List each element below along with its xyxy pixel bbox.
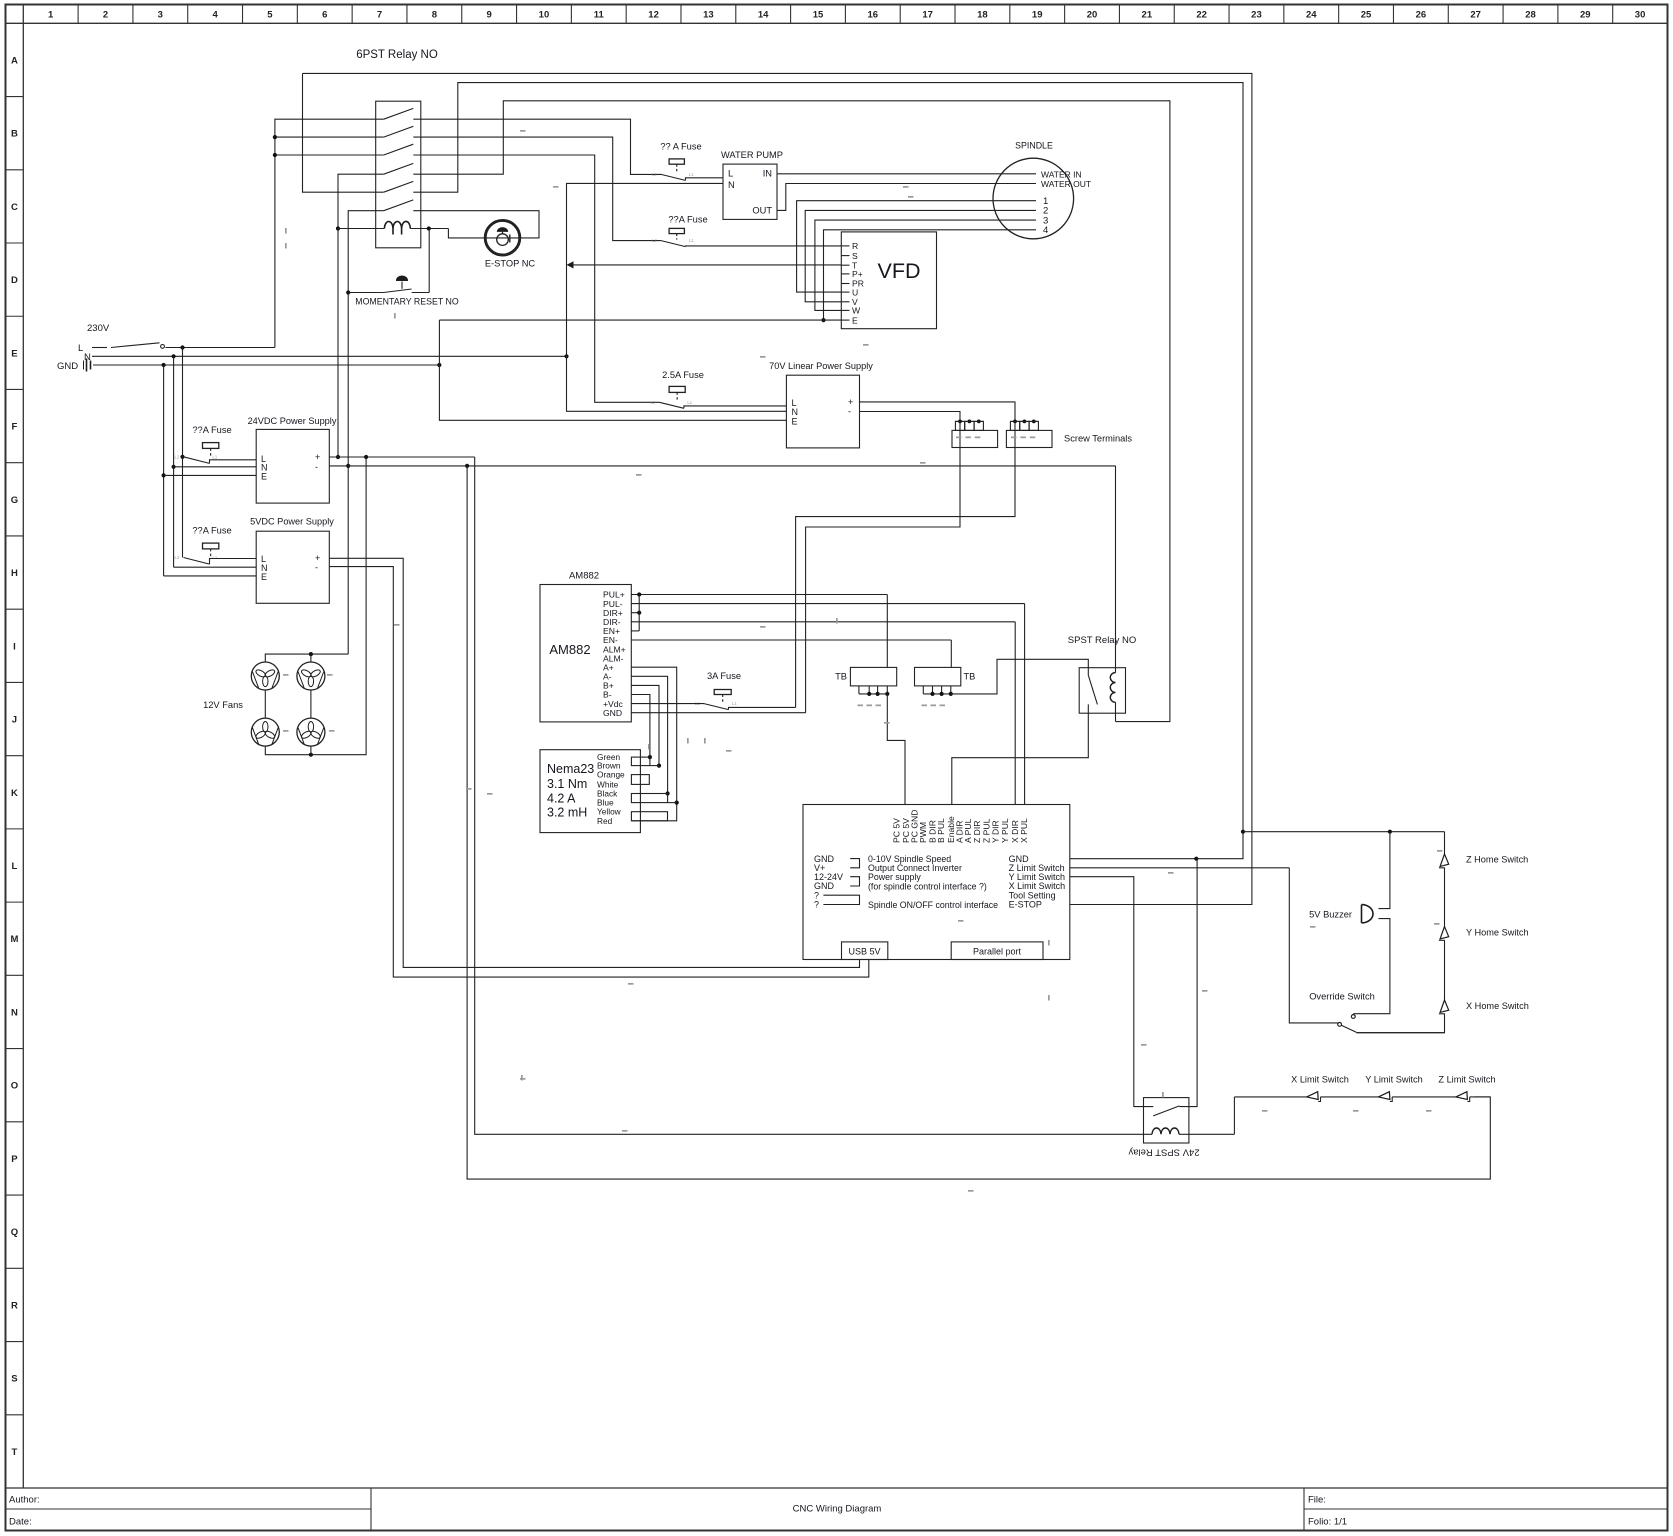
svg-text:L1: L1 bbox=[689, 172, 694, 177]
svg-text:M: M bbox=[10, 934, 18, 945]
svg-text:X Home Switch: X Home Switch bbox=[1466, 1001, 1529, 1011]
svg-text:F: F bbox=[11, 422, 17, 433]
svg-text:-: - bbox=[848, 407, 851, 417]
svg-text:230V: 230V bbox=[87, 323, 110, 334]
svg-text:C: C bbox=[11, 202, 18, 213]
svg-text:B: B bbox=[11, 129, 18, 140]
svg-text:Override Switch: Override Switch bbox=[1309, 992, 1375, 1002]
svg-text:L2: L2 bbox=[652, 238, 657, 243]
svg-text:I: I bbox=[13, 641, 16, 652]
svg-text:L1: L1 bbox=[213, 555, 218, 560]
svg-text:D: D bbox=[11, 275, 18, 286]
svg-text:P+: P+ bbox=[852, 269, 863, 279]
svg-text:J: J bbox=[12, 715, 17, 726]
svg-text:R: R bbox=[852, 241, 858, 251]
svg-text:Screw Terminals: Screw Terminals bbox=[1064, 434, 1132, 444]
svg-text:24: 24 bbox=[1306, 10, 1317, 21]
svg-text:8: 8 bbox=[432, 10, 437, 21]
svg-text:Spindle ON/OFF control interfa: Spindle ON/OFF control interface bbox=[868, 900, 998, 910]
svg-text:E-STOP: E-STOP bbox=[1009, 900, 1042, 910]
svg-text:24VDC Power Supply: 24VDC Power Supply bbox=[248, 416, 337, 426]
svg-text:+: + bbox=[848, 397, 853, 407]
svg-text:3.2 mH: 3.2 mH bbox=[547, 806, 587, 820]
svg-text:A: A bbox=[11, 55, 18, 66]
svg-text:Q: Q bbox=[11, 1227, 18, 1238]
svg-text:??A Fuse: ??A Fuse bbox=[668, 215, 707, 225]
svg-text:3: 3 bbox=[158, 10, 163, 21]
svg-text:+: + bbox=[315, 553, 320, 563]
svg-text:E: E bbox=[261, 572, 267, 582]
svg-text:SPST Relay NO: SPST Relay NO bbox=[1068, 635, 1136, 646]
svg-text:O: O bbox=[11, 1081, 18, 1092]
svg-text:TB: TB bbox=[835, 672, 847, 682]
svg-text:70V Linear Power Supply: 70V Linear Power Supply bbox=[769, 361, 873, 371]
svg-text:S: S bbox=[11, 1374, 17, 1385]
svg-text:Orange: Orange bbox=[597, 770, 625, 780]
svg-text:E: E bbox=[792, 416, 798, 426]
svg-text:Y PUL: Y PUL bbox=[1000, 818, 1010, 843]
svg-text:Date:: Date: bbox=[9, 1517, 32, 1528]
svg-text:11: 11 bbox=[594, 10, 605, 21]
svg-text:SPINDLE: SPINDLE bbox=[1015, 141, 1053, 151]
svg-text:18: 18 bbox=[977, 10, 988, 21]
svg-text:W: W bbox=[852, 306, 861, 316]
svg-text:7: 7 bbox=[377, 10, 382, 21]
svg-text:GND: GND bbox=[603, 708, 622, 718]
svg-text:Z Home Switch: Z Home Switch bbox=[1466, 854, 1528, 864]
svg-text:6PST Relay NO: 6PST Relay NO bbox=[356, 49, 438, 61]
svg-text:L2: L2 bbox=[650, 400, 655, 405]
svg-text:?: ? bbox=[814, 900, 819, 910]
svg-text:TB: TB bbox=[964, 672, 976, 682]
svg-text:H: H bbox=[11, 568, 18, 579]
svg-text:5VDC Power Supply: 5VDC Power Supply bbox=[250, 517, 334, 527]
svg-text:OUT: OUT bbox=[752, 206, 772, 216]
svg-text:-: - bbox=[315, 462, 318, 472]
svg-text:29: 29 bbox=[1580, 10, 1591, 21]
svg-text:-: - bbox=[315, 563, 318, 573]
svg-text:13: 13 bbox=[703, 10, 714, 21]
svg-text:AM882: AM882 bbox=[569, 571, 599, 582]
svg-text:1: 1 bbox=[48, 10, 54, 21]
svg-text:R: R bbox=[11, 1300, 18, 1311]
svg-text:Author:: Author: bbox=[9, 1495, 40, 1506]
svg-text:Y Home Switch: Y Home Switch bbox=[1466, 928, 1529, 938]
svg-text:28: 28 bbox=[1525, 10, 1536, 21]
svg-text:6: 6 bbox=[322, 10, 327, 21]
svg-text:E: E bbox=[261, 471, 267, 481]
svg-text:20: 20 bbox=[1087, 10, 1098, 21]
svg-text:Red: Red bbox=[597, 816, 613, 826]
svg-text:Y Limit Switch: Y Limit Switch bbox=[1365, 1075, 1423, 1085]
svg-text:AM882: AM882 bbox=[549, 642, 590, 657]
svg-text:17: 17 bbox=[922, 10, 933, 21]
svg-text:E: E bbox=[11, 348, 17, 359]
svg-text:GND: GND bbox=[57, 361, 78, 372]
svg-text:File:: File: bbox=[1308, 1495, 1326, 1506]
svg-text:3.1 Nm: 3.1 Nm bbox=[547, 777, 587, 791]
svg-text:N: N bbox=[728, 180, 735, 190]
svg-text:Nema23: Nema23 bbox=[547, 762, 594, 776]
svg-text:E-STOP NC: E-STOP NC bbox=[485, 259, 536, 269]
svg-text:24V SPST Relay: 24V SPST Relay bbox=[1128, 1147, 1199, 1158]
svg-text:4.2 A: 4.2 A bbox=[547, 792, 576, 806]
svg-text:Z Limit Switch: Z Limit Switch bbox=[1438, 1075, 1495, 1085]
svg-text:4: 4 bbox=[1043, 225, 1048, 236]
svg-text:22: 22 bbox=[1196, 10, 1207, 21]
svg-text:L: L bbox=[11, 861, 17, 872]
svg-text:16: 16 bbox=[868, 10, 879, 21]
svg-text:??A Fuse: ??A Fuse bbox=[192, 526, 231, 536]
svg-text:Folio: 1/1: Folio: 1/1 bbox=[1308, 1517, 1347, 1528]
svg-text:K: K bbox=[11, 788, 18, 799]
svg-text:WATER PUMP: WATER PUMP bbox=[721, 150, 783, 160]
svg-text:26: 26 bbox=[1416, 10, 1427, 21]
svg-text:WATER OUT: WATER OUT bbox=[1041, 179, 1091, 189]
svg-text:VFD: VFD bbox=[878, 259, 921, 283]
svg-text:5V Buzzer: 5V Buzzer bbox=[1309, 909, 1352, 919]
svg-text:IN: IN bbox=[763, 169, 772, 179]
svg-text:L1: L1 bbox=[689, 238, 694, 243]
svg-text:15: 15 bbox=[813, 10, 824, 21]
svg-text:USB 5V: USB 5V bbox=[848, 947, 880, 957]
svg-text:L2: L2 bbox=[175, 454, 180, 459]
svg-text:B PUL: B PUL bbox=[936, 818, 946, 843]
svg-text:30: 30 bbox=[1635, 10, 1646, 21]
svg-text:19: 19 bbox=[1032, 10, 1043, 21]
svg-text:+: + bbox=[315, 452, 320, 462]
svg-text:L2: L2 bbox=[652, 172, 657, 177]
svg-text:?? A Fuse: ?? A Fuse bbox=[660, 142, 701, 152]
svg-text:X Limit Switch: X Limit Switch bbox=[1291, 1075, 1349, 1085]
svg-text:(for spindle control interface: (for spindle control interface ?) bbox=[868, 882, 987, 892]
svg-text:12V Fans: 12V Fans bbox=[203, 700, 243, 710]
svg-text:G: G bbox=[11, 495, 18, 506]
svg-text:MOMENTARY RESET NO: MOMENTARY RESET NO bbox=[355, 297, 459, 307]
svg-text:2.5A Fuse: 2.5A Fuse bbox=[662, 370, 704, 380]
svg-text:21: 21 bbox=[1142, 10, 1153, 21]
svg-text:2: 2 bbox=[103, 10, 108, 21]
svg-text:S: S bbox=[852, 251, 858, 261]
svg-text:??A Fuse: ??A Fuse bbox=[192, 425, 231, 435]
svg-text:L1: L1 bbox=[213, 454, 218, 459]
svg-text:27: 27 bbox=[1470, 10, 1481, 21]
svg-text:Parallel port: Parallel port bbox=[973, 947, 1022, 957]
svg-text:L: L bbox=[78, 343, 83, 354]
svg-text:CNC Wiring Diagram: CNC Wiring Diagram bbox=[793, 1504, 882, 1515]
svg-text:L1: L1 bbox=[732, 701, 737, 706]
svg-text:E: E bbox=[852, 315, 858, 325]
svg-text:4: 4 bbox=[212, 10, 218, 21]
svg-text:25: 25 bbox=[1361, 10, 1372, 21]
svg-text:3A Fuse: 3A Fuse bbox=[707, 671, 741, 681]
svg-text:L1: L1 bbox=[687, 400, 692, 405]
svg-text:9: 9 bbox=[487, 10, 492, 21]
svg-text:5: 5 bbox=[267, 10, 273, 21]
svg-text:U: U bbox=[852, 287, 858, 297]
svg-text:X PUL: X PUL bbox=[1019, 818, 1029, 843]
svg-text:L: L bbox=[728, 169, 733, 179]
svg-text:L2: L2 bbox=[175, 555, 180, 560]
svg-text:T: T bbox=[11, 1447, 17, 1458]
svg-text:10: 10 bbox=[539, 10, 550, 21]
svg-text:P: P bbox=[11, 1154, 18, 1165]
svg-text:12: 12 bbox=[648, 10, 659, 21]
svg-text:WATER IN: WATER IN bbox=[1041, 169, 1082, 179]
svg-text:14: 14 bbox=[758, 10, 769, 21]
svg-text:23: 23 bbox=[1251, 10, 1262, 21]
svg-text:N: N bbox=[11, 1007, 18, 1018]
